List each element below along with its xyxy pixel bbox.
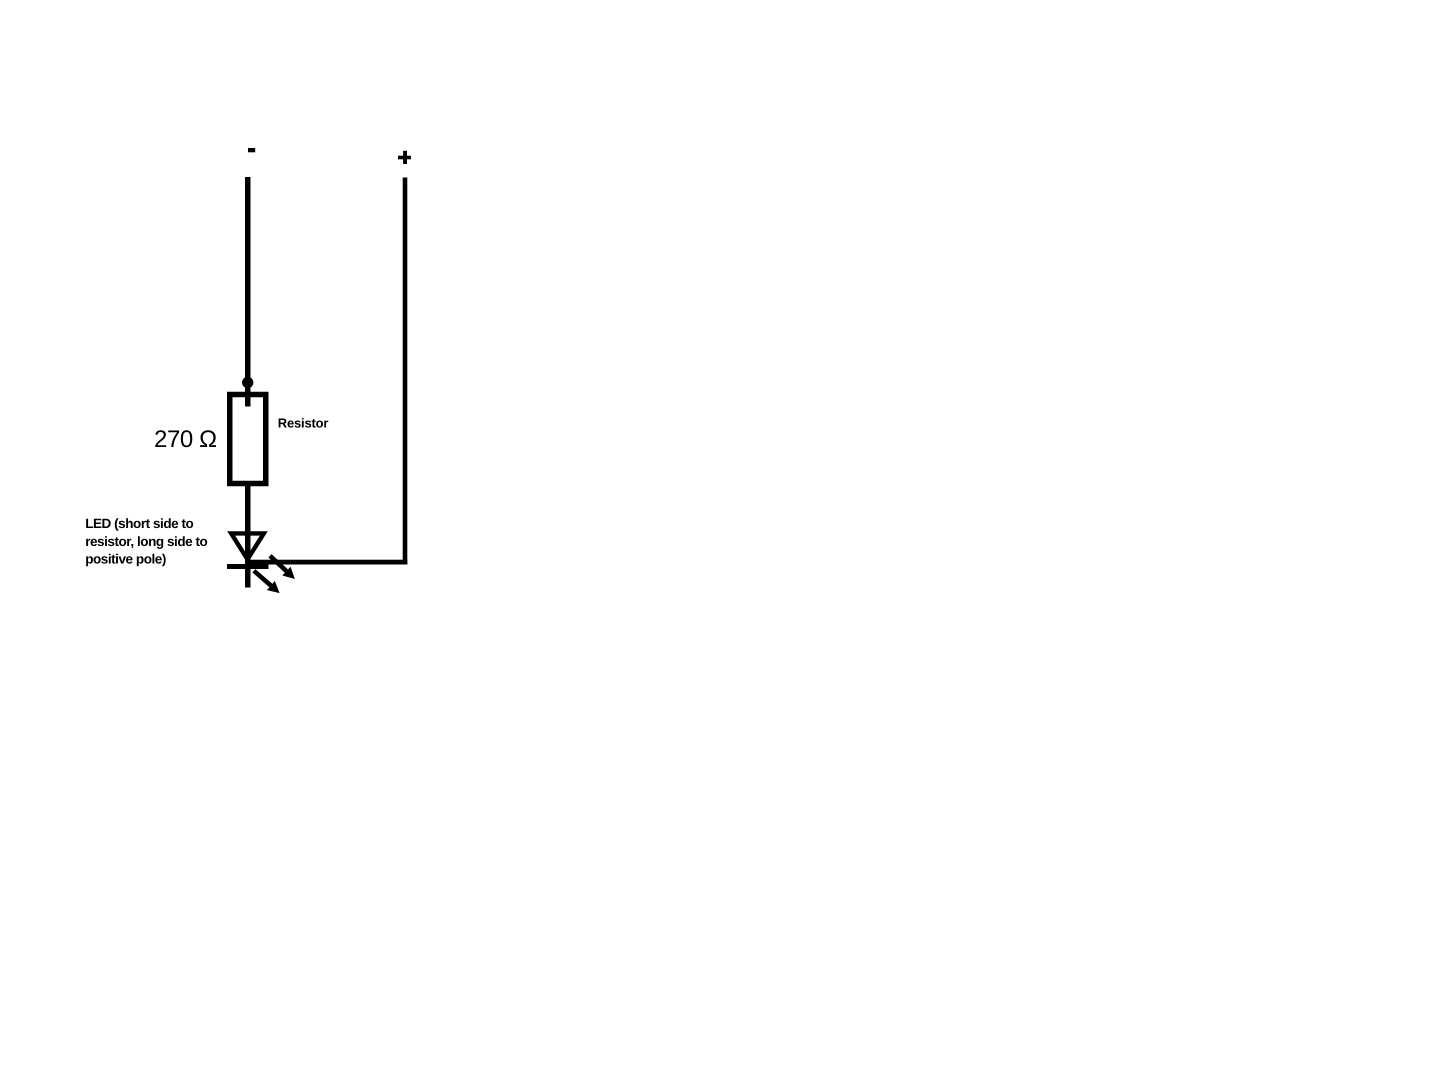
svg-text:Resistor: Resistor xyxy=(278,416,329,431)
svg-text:LED (short side to: LED (short side to xyxy=(85,516,193,531)
svg-text:270 Ω: 270 Ω xyxy=(154,426,217,453)
svg-text:positive pole): positive pole) xyxy=(85,551,166,566)
svg-text:resistor, long side to: resistor, long side to xyxy=(85,534,207,549)
